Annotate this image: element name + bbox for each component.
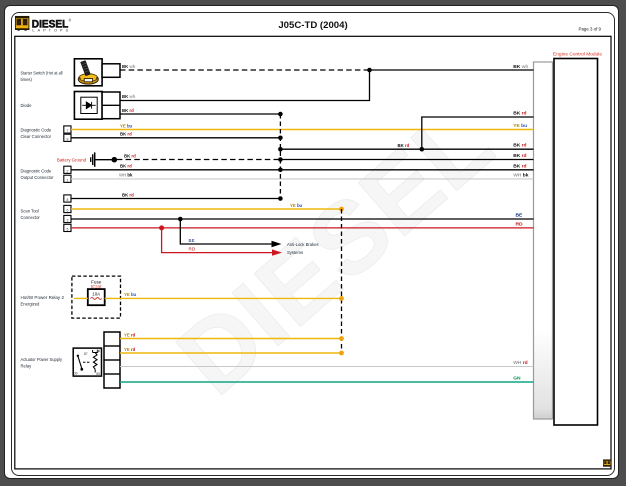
watermark [156,84,513,416]
svg-text:WH bk: WH bk [119,173,133,178]
svg-text:Energized: Energized [21,302,41,307]
svg-text:Battery Ground: Battery Ground [57,158,87,163]
svg-text:Diagnostic Code: Diagnostic Code [21,128,52,133]
svg-text:BK rd: BK rd [513,143,526,149]
node ground terminal dot [112,157,118,163]
svg-text:BK wh: BK wh [122,94,136,99]
relay K1 box [73,348,101,376]
node bus dot 2 [278,136,283,141]
svg-text:Anti-Lock Brakes: Anti-Lock Brakes [287,242,319,247]
svg-text:Hot/W Power Relay 2: Hot/W Power Relay 2 [21,295,65,300]
svg-text:J05C-TD (2004): J05C-TD (2004) [278,20,347,31]
svg-text:Clear Connector: Clear Connector [21,134,52,139]
clear connector pin 1 [64,126,71,133]
svg-text:5: 5 [66,227,68,231]
wire bus to ECM (BK rd) [280,159,533,161]
scan tool pin 2 [64,205,71,212]
svg-text:BK rd: BK rd [513,110,526,116]
svg-text:BK rd: BK rd [120,132,132,137]
wire relay pin3 to ECM (WH rd) [120,366,534,368]
svg-text:Scan Tool: Scan Tool [21,209,39,214]
svg-text:7: 7 [66,129,68,133]
svg-text:Actuator Power Supply: Actuator Power Supply [21,357,63,362]
diode D1 symbol [82,102,96,109]
diode connector pins [102,92,120,119]
svg-text:®: ® [69,19,72,23]
svg-text:Diagnostic Code: Diagnostic Code [21,169,52,174]
svg-text:YE bu: YE bu [290,203,303,208]
node scan pin3 junction [178,217,183,222]
svg-text:WH rd: WH rd [513,360,527,366]
node yellow bus dot 3 [339,336,344,341]
svg-text:86: 86 [97,349,101,353]
svg-text:Page 3 of 9: Page 3 of 9 [579,27,602,32]
ECM U1 main box [554,59,598,426]
corner mini logo [603,460,611,467]
fuse F20 dashed box [72,276,121,318]
svg-text:YE rd: YE rd [124,347,136,352]
bus: dashed vertical yellow-link bus [341,209,343,353]
node jog junction [420,147,425,152]
fuse F20 box 10A [88,289,105,305]
relay K1 coil symbol [93,349,101,376]
svg-text:YE bu: YE bu [120,123,133,128]
wire scan pin4 to ECM (RD red) [71,227,534,229]
diode D1 box [74,92,102,120]
svg-text:BE: BE [516,213,524,219]
arrow to anti-lock red [272,249,282,255]
clear connector pin 2 [64,134,71,141]
node bus dot 6 [278,196,283,201]
node yellow bus dot 4 [339,351,344,356]
svg-text:RD: RD [189,247,196,252]
svg-text:YE rd: YE rd [124,332,136,337]
svg-text:Output Connector: Output Connector [21,175,55,180]
node bus dot 3 [278,147,283,152]
svg-text:1: 1 [66,178,68,182]
svg-text:Systems: Systems [287,250,303,255]
svg-text:BK wh: BK wh [513,64,528,70]
relay K1 switch symbol [74,352,88,376]
starter switch key icon [78,61,98,85]
svg-text:9: 9 [66,137,68,141]
svg-text:BK rd: BK rd [122,108,134,113]
svg-text:30: 30 [74,372,78,376]
svg-text:BK rd: BK rd [513,163,526,169]
svg-text:85: 85 [96,372,100,376]
scan tool pin 1 [64,195,71,202]
svg-text:BK rd: BK rd [398,143,410,148]
svg-text:10A: 10A [92,291,100,296]
svg-text:LAPTOPS: LAPTOPS [32,28,71,33]
scan tool pin 4 [64,224,71,231]
relay K1 actuation dashed link [83,361,91,363]
svg-text:GN: GN [513,376,521,382]
bus: dashed vertical black bus [279,114,281,199]
header logo Diesel Laptops [15,16,72,32]
svg-text:3: 3 [66,219,68,223]
wire junction to ECM (BK wh) [370,69,534,71]
ground symbol [90,157,92,162]
node yellow bus dot 2 [339,296,344,301]
wire scan pin3 to ECM (BE) [71,218,534,220]
wire relay pin4 to ECM (GN green) [120,381,534,383]
node bus dot 4 [278,157,283,162]
svg-text:Engine Control Module: Engine Control Module [553,52,602,57]
output connector pin 1 [64,166,71,173]
wire jog up to ECM (BK rd) [422,117,534,149]
svg-text:8: 8 [66,198,68,202]
svg-text:Starter Switch (Hot at all: Starter Switch (Hot at all [21,71,63,76]
node scan pin4 junction [159,225,164,230]
arrow to anti-lock black [272,241,282,247]
starter switch connector pin [102,64,120,78]
starter switch S1 box [74,59,102,86]
node yellow bus dot 1 [339,207,344,212]
svg-text:BK rd: BK rd [513,153,526,159]
svg-text:2: 2 [66,169,68,173]
svg-text:Relay: Relay [21,364,33,369]
svg-text:87: 87 [84,352,88,356]
svg-text:6: 6 [66,209,68,213]
svg-text:WH bk: WH bk [513,173,529,179]
output connector pin 2 [64,175,71,182]
svg-text:BK rd: BK rd [122,192,134,197]
svg-text:YE bu: YE bu [513,123,527,129]
svg-text:Diode: Diode [21,103,33,108]
scan tool pin 3 [64,215,71,222]
svg-text:BK wh: BK wh [122,64,136,69]
svg-text:BE: BE [189,238,195,243]
svg-text:RD: RD [516,221,524,227]
node bus dot 1 [278,112,283,117]
svg-text:BK rd: BK rd [124,153,136,158]
node bus dot 5 [278,168,283,173]
svg-text:Fuse: Fuse [91,279,102,284]
svg-text:times): times) [21,77,33,82]
node junction starter/diode [367,68,372,73]
fuse element squiggle [91,298,102,300]
wire ground to dot [95,159,114,161]
svg-text:YE bu: YE bu [124,292,137,297]
svg-text:Connector: Connector [21,215,41,220]
svg-text:BK rd: BK rd [120,164,132,169]
relay connector strip [104,332,120,388]
